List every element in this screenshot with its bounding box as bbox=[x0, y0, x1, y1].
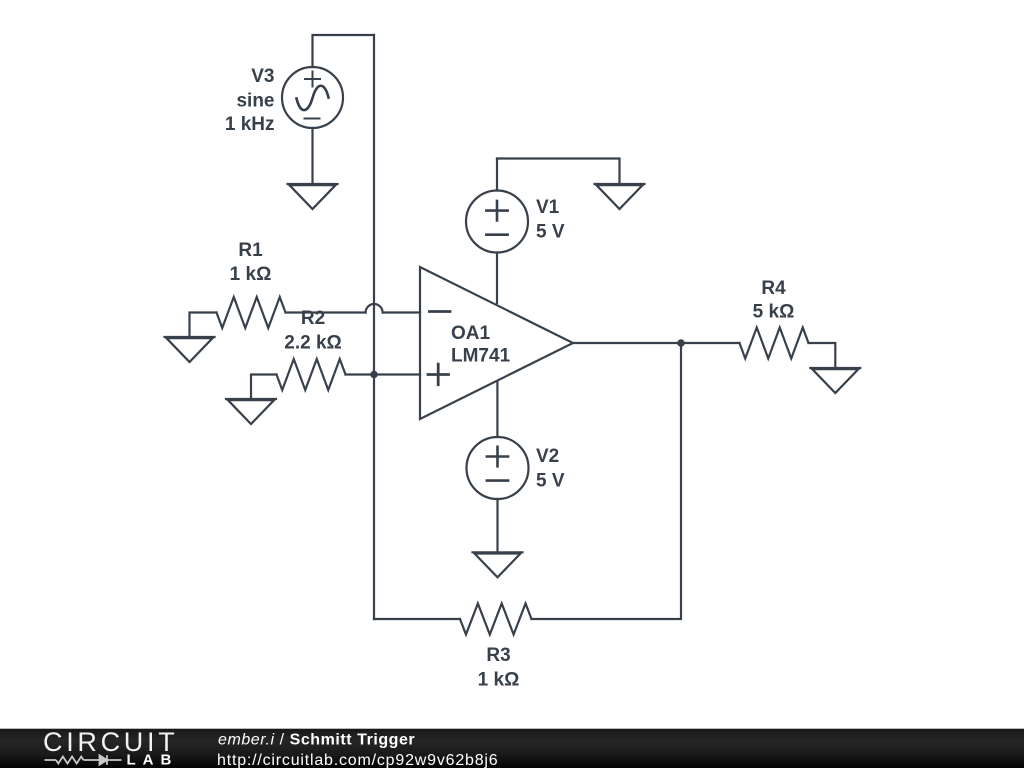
wire V1 top bbox=[497, 159, 620, 185]
ground V1 bbox=[595, 184, 645, 209]
voltage source V2 bbox=[467, 437, 529, 499]
svg-text:R3: R3 bbox=[486, 645, 510, 666]
resistor R3 bbox=[460, 604, 532, 635]
resistor R2 bbox=[277, 359, 346, 390]
ground V3 bbox=[288, 184, 338, 209]
R1 labels bbox=[230, 240, 272, 285]
wire feedback left bbox=[374, 618, 460, 620]
svg-text:R2: R2 bbox=[301, 308, 325, 329]
node junction at output bbox=[677, 339, 685, 347]
ground R2 bbox=[226, 399, 276, 424]
wire V1 to supply node bbox=[496, 159, 498, 191]
svg-text:R1: R1 bbox=[238, 240, 263, 261]
node junction at plus input bbox=[370, 371, 378, 379]
voltage source V1 bbox=[466, 191, 528, 253]
svg-text:V2: V2 bbox=[536, 446, 559, 467]
resistor R4 bbox=[740, 328, 809, 359]
wire R1 left bbox=[190, 313, 217, 338]
svg-text:LAB: LAB bbox=[127, 752, 179, 768]
wire V3 top to node bbox=[313, 35, 375, 67]
wire R1 to hop bbox=[286, 311, 366, 313]
ground R1 bbox=[165, 337, 215, 362]
logo resistor squiggle bbox=[45, 755, 122, 764]
footer bar bbox=[0, 729, 1024, 768]
svg-text:V1: V1 bbox=[536, 197, 560, 218]
svg-text:ember.i / Schmitt Trigger: ember.i / Schmitt Trigger bbox=[218, 732, 415, 749]
logo diode bbox=[100, 755, 108, 764]
V1 labels bbox=[536, 197, 565, 243]
wire feedback from output node bbox=[532, 343, 682, 619]
svg-text:5 kΩ: 5 kΩ bbox=[753, 302, 795, 323]
wire R2 to op-amp plus input bbox=[346, 373, 421, 375]
svg-text:5 V: 5 V bbox=[536, 222, 565, 243]
wire V2 bottom bbox=[496, 499, 498, 552]
svg-text:2.2 kΩ: 2.2 kΩ bbox=[284, 333, 342, 354]
svg-text:OA1: OA1 bbox=[451, 323, 491, 344]
ground V2 bbox=[473, 552, 523, 577]
V2 labels bbox=[536, 446, 565, 492]
wire V3 bottom bbox=[311, 128, 313, 184]
V3 labels bbox=[225, 66, 275, 135]
ground R4 bbox=[810, 368, 860, 393]
wire R2 left bbox=[251, 375, 277, 400]
R3 labels bbox=[478, 645, 520, 691]
svg-text:5 V: 5 V bbox=[536, 471, 565, 492]
R2 labels bbox=[284, 308, 342, 354]
wire hop to op-amp minus input bbox=[383, 311, 420, 313]
svg-text:sine: sine bbox=[236, 91, 274, 112]
svg-text:R4: R4 bbox=[761, 278, 786, 299]
wire R4 right bbox=[809, 343, 836, 368]
svg-text:http://circuitlab.com/cp92w9v6: http://circuitlab.com/cp92w9v62b8j6 bbox=[217, 752, 498, 768]
svg-text:1 kΩ: 1 kΩ bbox=[478, 670, 520, 691]
wire op-amp output bbox=[573, 342, 740, 344]
R4 labels bbox=[753, 278, 795, 323]
svg-text:V3: V3 bbox=[251, 66, 274, 87]
OA1 labels bbox=[451, 323, 511, 367]
wire V1 bottom to op-amp bbox=[496, 253, 498, 304]
op-amp OA1 bbox=[420, 267, 573, 419]
svg-text:1 kHz: 1 kHz bbox=[225, 114, 275, 135]
wire main vertical net bbox=[373, 35, 375, 619]
svg-text:LM741: LM741 bbox=[451, 346, 511, 367]
svg-text:1 kΩ: 1 kΩ bbox=[230, 264, 272, 285]
resistor R1 bbox=[217, 297, 286, 328]
voltage source V3 bbox=[282, 67, 343, 128]
wire op-amp to V2 bbox=[496, 383, 498, 438]
wire hop over vertical net bbox=[366, 304, 383, 313]
